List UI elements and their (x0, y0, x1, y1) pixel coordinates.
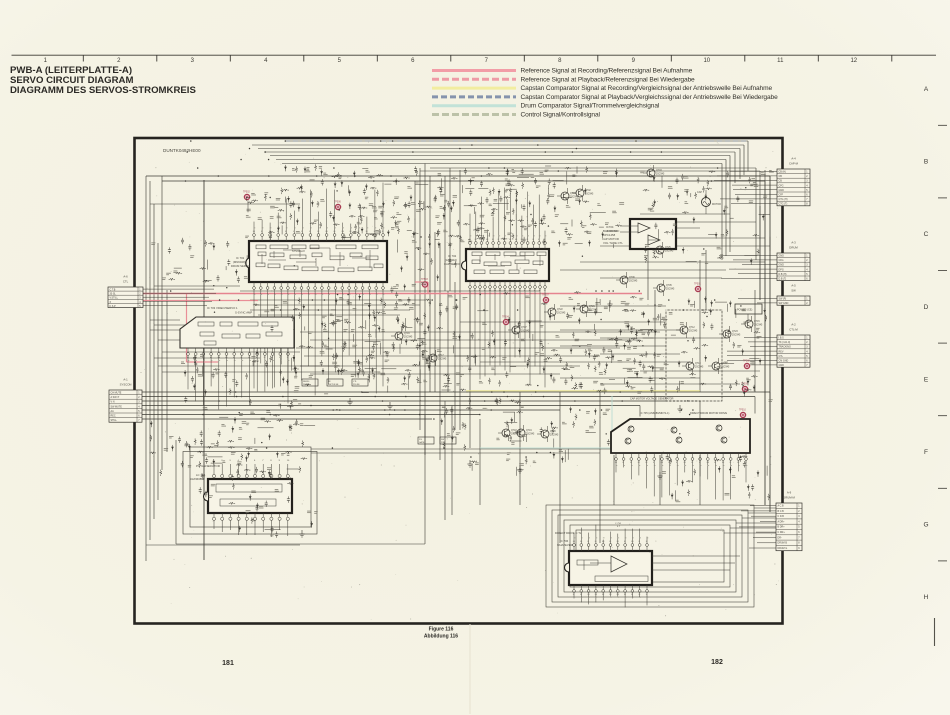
svg-text:A-1: A-1 (123, 378, 128, 382)
svg-text:GND: GND (779, 364, 785, 367)
svg-text:C: C (924, 231, 929, 238)
connector A-5 (738, 284, 810, 306)
svg-text:B DR+: B DR+ (778, 526, 786, 529)
transistor Q718 2SC945 (498, 425, 520, 441)
wire bus: mid-band long horizontals (296, 332, 660, 374)
svg-text:Q715: Q715 (754, 321, 760, 323)
svg-text:DRUM SERVO: DRUM SERVO (231, 264, 251, 268)
svg-text:Q701: Q701 (570, 193, 576, 195)
page edge mark (934, 618, 936, 646)
IC703 bottom pins (187, 348, 290, 409)
svg-text:2SC945: 2SC945 (526, 434, 535, 436)
svg-text:WHATEVER: WHATEVER (557, 543, 573, 547)
svg-text:11: 11 (777, 58, 784, 64)
svg-text:2SC945: 2SC945 (585, 194, 594, 196)
svg-text:SW PULSE: SW PULSE (328, 384, 339, 386)
svg-text:B C.B: B C.B (778, 510, 785, 513)
test point TP508 (743, 361, 750, 369)
svg-text:TP506: TP506 (334, 202, 341, 204)
svg-text:DIAGRAMM DES SERVOS-STROMKREIS: DIAGRAMM DES SERVOS-STROMKREIS (10, 85, 196, 96)
test point TP504 (502, 317, 509, 325)
wire: bottom area verticals into IC705/IC706 (480, 392, 700, 543)
svg-text:Q712: Q712 (689, 327, 695, 329)
op-amp IC706 direct drive CTL mixer (555, 531, 652, 585)
svg-text:Drum Comparator Signal/Trommel: Drum Comparator Signal/Trommelvergleichs… (521, 103, 660, 110)
legend: Capstan Comparator Signal at Recording (432, 87, 516, 90)
svg-text:2SC945: 2SC945 (721, 367, 730, 369)
svg-text:DPG: DPG (779, 268, 784, 271)
svg-text:REF30: REF30 (303, 381, 310, 383)
transistor Q715 2SC945 (741, 316, 763, 332)
transistor Q707 2SC945 (508, 322, 530, 338)
svg-text:VOL THRE CTL: VOL THRE CTL (603, 241, 623, 245)
svg-text:DIRECT DRUM MOTOR DRIVE: DIRECT DRUM MOTOR DRIVE (690, 411, 727, 415)
wire: outer right verticals (756, 168, 770, 512)
IC706 bottom pins (573, 585, 649, 607)
column ruler line (12, 54, 937, 56)
svg-text:SW: SW (441, 439, 444, 441)
transistor Q706 2SC945 (616, 272, 638, 288)
svg-text:SYSCON: SYSCON (120, 383, 132, 387)
svg-text:TP507: TP507 (542, 295, 549, 297)
svg-text:H: H (924, 594, 929, 601)
svg-text:TP504: TP504 (502, 317, 509, 319)
transistor Q720 2SC945 (537, 426, 559, 442)
svg-text:GATE: GATE (419, 441, 425, 444)
svg-text:A-3: A-3 (791, 241, 796, 245)
wire bus: center verticals (415, 164, 470, 461)
svg-text:GND: GND (779, 264, 785, 267)
svg-text:Capstan Comparator Signal at P: Capstan Comparator Signal at Playback/Ve… (521, 94, 779, 101)
svg-text:2SC945: 2SC945 (629, 281, 638, 283)
pulse label box REF30 (302, 379, 318, 386)
power control block POWER (CE) (735, 304, 762, 322)
row ruler ticks (938, 125, 947, 561)
transistor Q713 2SC945 (682, 358, 704, 374)
svg-text:D.B (T): D.B (T) (779, 278, 787, 281)
svg-text:2SC945: 2SC945 (665, 251, 674, 253)
svg-text:A-9: A-9 (787, 491, 792, 495)
discrete component field (resistors, capacitors, diodes, value labels) (150, 164, 774, 538)
dashed block: cap motor voltage generator (630, 310, 722, 401)
svg-text:TK (=A1.0): TK (=A1.0) (779, 341, 791, 344)
svg-text:CFG: CFG (779, 259, 784, 262)
wire: IC706 loop links to DRUM-M connector (724, 508, 777, 533)
svg-text:F: F (924, 449, 928, 456)
transistor Q723 2SC945 (719, 326, 741, 342)
wire bus: rows under IC701 (250, 300, 425, 315)
op-amp IC701 MN6049 DRUM SERVO (231, 241, 387, 282)
svg-text:A SW. P: A SW. P (111, 396, 120, 399)
svg-text:CAP: CAP (697, 191, 702, 194)
svg-text:S-SYNC AMP: S-SYNC AMP (235, 311, 252, 315)
svg-text:2SC945: 2SC945 (656, 174, 665, 176)
svg-text:Figure 116: Figure 116 (429, 627, 454, 633)
svg-text:181: 181 (222, 660, 234, 667)
op-amp IC704 capstan motor voltage comparator (602, 219, 700, 249)
svg-text:Reference Signal at Playback/R: Reference Signal at Playback/Referenzsig… (521, 76, 696, 83)
svg-text:PULSE: PULSE (353, 384, 360, 386)
svg-text:D.B (H): D.B (H) (779, 273, 787, 276)
svg-text:TP503: TP503 (421, 279, 428, 281)
IC701 top pins (253, 183, 385, 241)
svg-text:2SC945: 2SC945 (511, 434, 520, 436)
wire junction dots (170, 140, 747, 458)
svg-text:I.B.S: I.B.S (779, 337, 785, 340)
svg-text:C D.B: C D.B (778, 515, 785, 518)
column numbers 1-12 (44, 58, 858, 64)
svg-text:IC 705 (AN6880/MD71-1): IC 705 (AN6880/MD71-1) (640, 411, 670, 415)
column ruler ticks (83, 55, 892, 61)
svg-text:Q717: Q717 (438, 355, 444, 357)
svg-text:REC: REC (111, 415, 116, 418)
ground symbols (299, 300, 682, 537)
counter IC LC701 912N6089P PG generator (190, 464, 292, 513)
svg-text:IC 703 VIDEO/SERVO 1: IC 703 VIDEO/SERVO 1 (207, 306, 238, 310)
transistor Q705 2SC945 (653, 280, 675, 296)
svg-text:SW GND: SW GND (779, 302, 789, 305)
svg-text:CAP SERVO: CAP SERVO (444, 262, 461, 266)
svg-text:Q703: Q703 (656, 170, 662, 172)
svg-text:2SC945: 2SC945 (557, 313, 566, 315)
connector A-3 (719, 241, 810, 281)
svg-text:G: G (923, 522, 928, 529)
legend: Control Signal (432, 113, 516, 116)
svg-text:DRUM B: DRUM B (778, 542, 788, 545)
svg-text:CM GND: CM GND (779, 360, 789, 363)
transistor Q717 2SC945 (425, 350, 447, 366)
svg-text:Q716: Q716 (404, 333, 410, 335)
svg-text:C DR+: C DR+ (778, 531, 786, 534)
svg-text:2SC945: 2SC945 (754, 325, 763, 327)
wire bus: mid horizontals above A-1 rows (154, 286, 540, 291)
pulse label box CTL (352, 379, 368, 386)
svg-text:D: D (924, 304, 929, 311)
reference signal trace (pink) lower-left stub (140, 300, 258, 302)
svg-text:A-4: A-4 (791, 157, 796, 161)
op-amp IC703 sync separator / sync amp (180, 306, 294, 348)
svg-text:10: 10 (703, 58, 710, 64)
connector A-4 (714, 157, 810, 206)
svg-text:TP501: TP501 (694, 284, 701, 286)
svg-text:2SC945: 2SC945 (404, 337, 413, 339)
wire bus: right-center verticals (648, 170, 770, 512)
row letters A-H (923, 86, 928, 601)
svg-text:Control Signal/Kontrollsignal: Control Signal/Kontrollsignal (521, 112, 601, 119)
svg-text:DRUM: DRUM (789, 246, 798, 250)
svg-text:Capstan Comparator Signal at R: Capstan Comparator Signal at Recording/V… (521, 85, 773, 92)
svg-text:V N: V N (111, 401, 115, 404)
svg-text:Q725: Q725 (665, 247, 671, 249)
drum comparator signal trace (teal) (480, 396, 612, 448)
connector A-6 (108, 275, 216, 308)
svg-text:DRUM-M: DRUM-M (783, 496, 795, 500)
test point TP509 (741, 384, 748, 392)
wire bus: lower horizontals (146, 401, 610, 545)
reference signal trace (pink) vertical drop at sync amp (187, 294, 219, 363)
test point TP507 (542, 295, 549, 303)
transistor Q703 2SC945 (643, 165, 665, 181)
svg-text:CB (H): CB (H) (779, 171, 787, 174)
test point TP506 (334, 202, 341, 210)
svg-text:E: E (924, 376, 929, 383)
test point TP502 (243, 192, 250, 200)
transistor Q724 2SC945 (708, 358, 730, 374)
svg-text:12: 12 (850, 58, 857, 64)
svg-text:2SC945: 2SC945 (521, 331, 530, 333)
transistor Q719 2SC945 (513, 425, 535, 441)
svg-text:2SC945: 2SC945 (695, 367, 704, 369)
svg-text:CTG (H): CTG (H) (779, 198, 788, 201)
test point TP501 (694, 284, 701, 292)
svg-text:TP508: TP508 (743, 361, 750, 363)
svg-text:K.S.P: K.S.P (110, 305, 117, 308)
wire bus: right-mid ladder horizontals (460, 214, 770, 384)
svg-text:182: 182 (711, 659, 723, 666)
svg-text:2SC945: 2SC945 (689, 331, 698, 333)
LC701 bottom pins (212, 513, 289, 537)
svg-text:SW MUTE: SW MUTE (111, 405, 123, 408)
svg-text:CTL-M: CTL-M (789, 328, 798, 332)
wire bus: left-mid ladder horizontals (150, 320, 380, 372)
svg-text:CTG (T): CTG (T) (779, 203, 788, 206)
svg-text:CFG: CFG (779, 184, 784, 187)
svg-text:Q707: Q707 (521, 327, 527, 329)
legend: Capstan Comparator Signal at Playback (432, 95, 516, 98)
svg-text:Reference Signal at Recording/: Reference Signal at Recording/Referenzsi… (521, 68, 693, 75)
svg-text:CB: CB (779, 175, 783, 178)
svg-text:C 734: C 734 (615, 523, 622, 525)
pulse label box PG (418, 437, 434, 444)
wire bus: right-side verticals from top bus (722, 141, 748, 260)
wire loops around PG generator (176, 415, 425, 544)
svg-text:CTL: CTL (779, 355, 784, 358)
svg-text:Q705: Q705 (666, 285, 672, 287)
transistor Q725 2SC945 (652, 242, 674, 258)
svg-text:DIRECT DRIVE C TL: DIRECT DRIVE C TL (555, 531, 582, 535)
wire loop: nested rectangles around IC706 drive stage (546, 505, 754, 607)
scan noise specks (141, 142, 779, 620)
transistor array IC705 direct drum motor drive (611, 411, 750, 453)
svg-text:Q721: Q721 (589, 306, 595, 308)
svg-text:30 SL: 30 SL (110, 293, 117, 296)
svg-text:Q719: Q719 (526, 430, 532, 432)
legend: Reference Signal at Recording (432, 69, 516, 72)
connector A-9 (739, 491, 802, 551)
svg-text:SYS DELAY: SYS DELAY (292, 250, 306, 253)
reference recording signal trace (pink) main horizontal (140, 293, 642, 295)
svg-text:Q718: Q718 (511, 430, 517, 432)
svg-text:TP502: TP502 (243, 192, 250, 194)
svg-text:SW: SW (791, 289, 796, 293)
legend: Drum Comparator Signal (432, 104, 516, 107)
svg-text:A-2: A-2 (791, 323, 796, 327)
pulse label box SW (440, 437, 456, 444)
wire bus: top nested horizontal runs to right-edge connectors (252, 141, 748, 164)
svg-text:Q722: Q722 (557, 309, 563, 311)
svg-text:Q723: Q723 (732, 331, 738, 333)
transistor Q702 2SC945 (572, 185, 594, 201)
svg-text:GND: GND (779, 189, 785, 192)
capstan motor M701 (697, 190, 721, 214)
svg-text:CAP MOTOR VOLTAGE GENERATOR: CAP MOTOR VOLTAGE GENERATOR (630, 398, 674, 401)
board frame (135, 138, 783, 624)
svg-text:A-6: A-6 (123, 275, 128, 279)
transistor Q712 2SC945 (676, 322, 698, 338)
svg-text:CTL: CTL (123, 280, 129, 284)
svg-text:CB: CB (779, 180, 783, 183)
transistor Q722 2SC945 (544, 304, 566, 320)
svg-text:CH MUTE: CH MUTE (111, 392, 122, 395)
svg-text:B: B (924, 159, 928, 166)
op-amp IC702 AN6342 CAPSTAN SERVO (444, 249, 549, 281)
svg-text:DR-: DR- (778, 536, 782, 539)
wire: outer horizontal loops (146, 168, 770, 204)
test point TP503 (421, 279, 428, 287)
capstan playback signal trace (dashed) along top bus (285, 140, 748, 142)
svg-text:912N6089P: 912N6089P (190, 477, 205, 481)
IC702 top pins (469, 188, 547, 249)
svg-text:Abbildung 116: Abbildung 116 (424, 634, 458, 640)
svg-text:2SC945: 2SC945 (666, 289, 675, 291)
svg-text:CFF: CFF (779, 194, 784, 197)
pulse label box RF (327, 379, 343, 386)
IC701 bottom pins (253, 282, 385, 395)
svg-text:TRACKING: TRACKING (779, 346, 791, 349)
connector A-2 (727, 323, 810, 368)
svg-text:SW (P): SW (P) (779, 298, 787, 301)
svg-text:STILL: STILL (111, 419, 118, 422)
svg-text:GND: GND (779, 255, 785, 258)
transistor Q701 2SC945 (557, 188, 579, 204)
capstan recording signal trace (yellow) (466, 390, 700, 392)
LC701 top pins with connector rings (212, 460, 290, 479)
wire bus: A-1 connector fan-out rows (142, 392, 770, 434)
IC705 bottom pins (615, 453, 748, 500)
connector A-1 (109, 378, 142, 423)
svg-text:2SC945: 2SC945 (732, 335, 741, 337)
IC706 top pins (573, 525, 649, 551)
svg-text:A C.B: A C.B (778, 505, 785, 508)
svg-text:2SC945: 2SC945 (438, 359, 447, 361)
svg-text:A DR+: A DR+ (778, 520, 786, 523)
svg-text:MOTOR: MOTOR (712, 203, 721, 206)
transistor Q721 2SC945 (576, 301, 598, 317)
svg-text:TP510: TP510 (739, 410, 746, 412)
svg-text:A: A (924, 86, 929, 93)
page crease below frame (469, 624, 471, 714)
svg-text:AA: AA (111, 410, 115, 413)
test point TP510 (739, 410, 746, 418)
svg-text:Q713: Q713 (695, 363, 701, 365)
legend: Reference Signal at Playback (432, 78, 516, 81)
svg-text:DRUM G: DRUM G (778, 547, 788, 550)
transistor Q716 2SC945 (391, 328, 413, 344)
svg-text:Q706: Q706 (629, 277, 635, 279)
svg-text:REV: REV (779, 350, 784, 353)
wire: IC706 output links into loop field (615, 523, 740, 570)
reference signal trace (pink) riser to IC702 (415, 282, 428, 294)
svg-text:CAP-M: CAP-M (789, 162, 799, 166)
svg-text:2SC945: 2SC945 (550, 435, 559, 437)
svg-text:C.T.B: C.T.B (110, 289, 116, 292)
svg-text:V.STILL: V.STILL (110, 297, 119, 300)
svg-text:A-5: A-5 (791, 284, 796, 288)
svg-text:DUNTK0492HE00: DUNTK0492HE00 (163, 148, 201, 153)
wire bus: left-side nested verticals (146, 176, 204, 561)
svg-text:PG: PG (419, 439, 422, 441)
IC702 bottom pins (469, 281, 547, 387)
